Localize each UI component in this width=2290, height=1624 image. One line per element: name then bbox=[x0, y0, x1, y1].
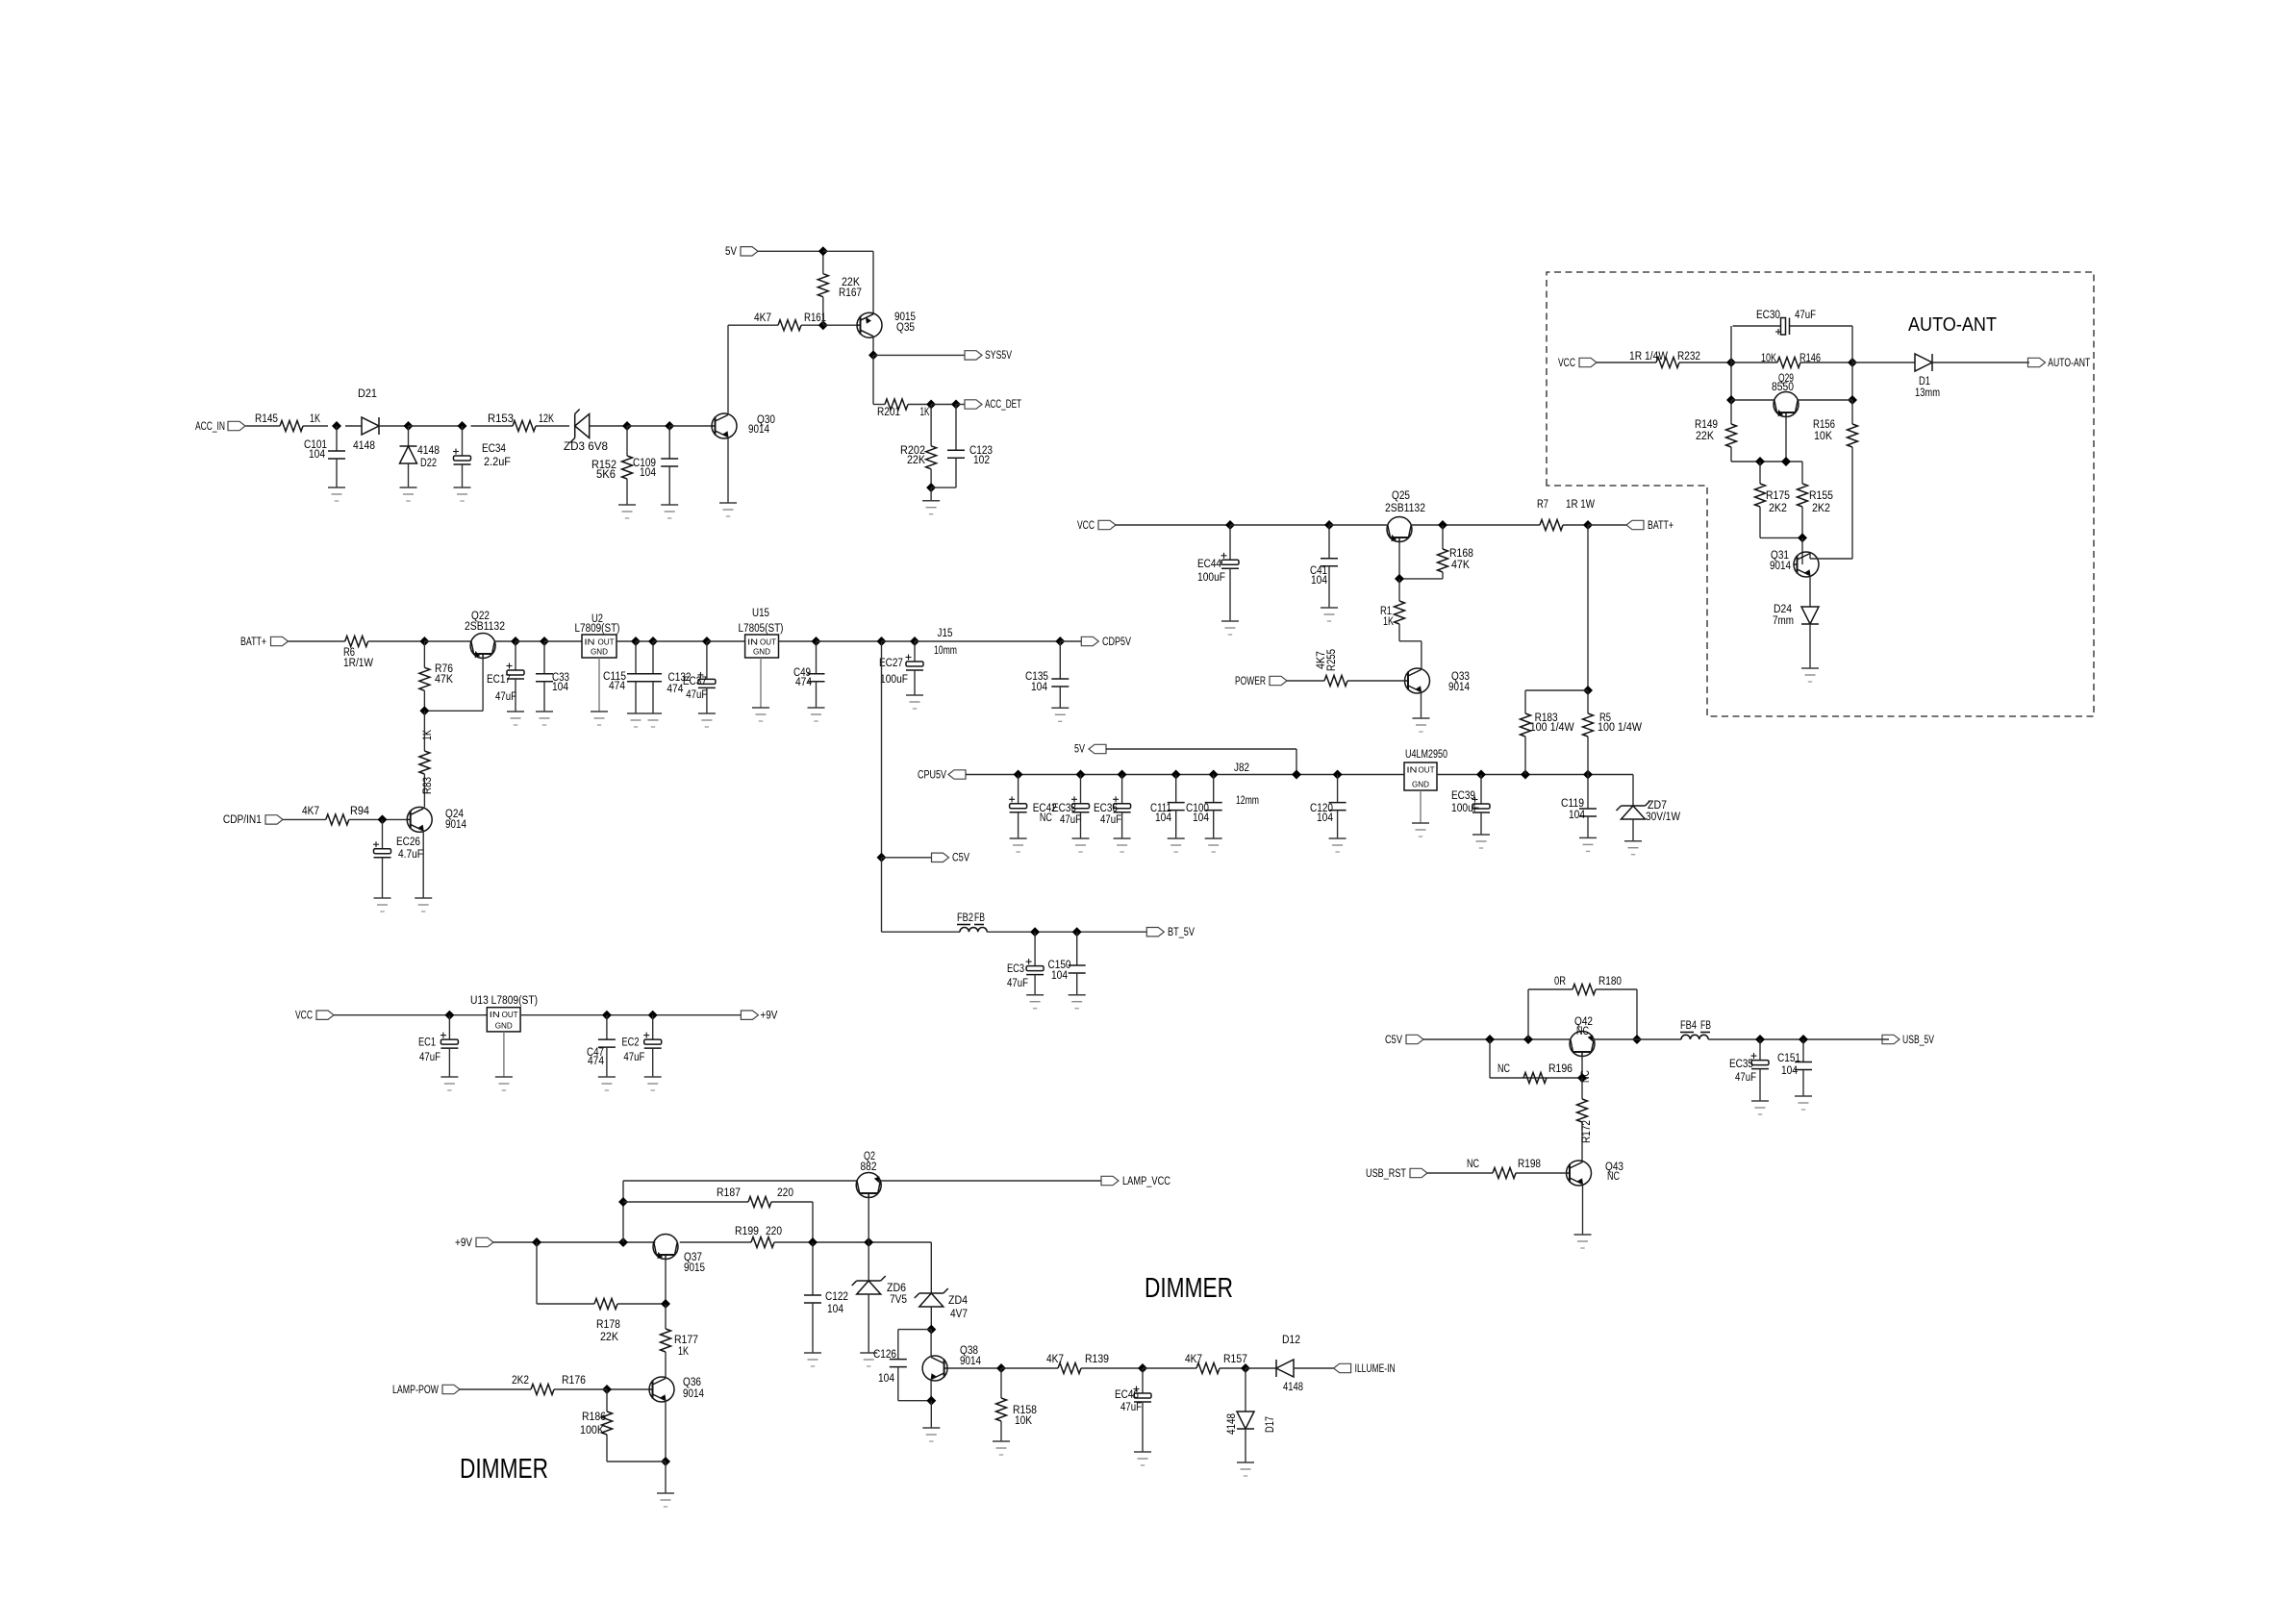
svg-text:VCC: VCC bbox=[1077, 520, 1095, 532]
svg-text:Q25: Q25 bbox=[1392, 490, 1410, 502]
svg-text:100uF: 100uF bbox=[1197, 572, 1225, 584]
svg-text:2K2: 2K2 bbox=[1769, 503, 1787, 514]
svg-text:R168: R168 bbox=[1449, 548, 1473, 560]
svg-text:R178: R178 bbox=[596, 1319, 620, 1331]
svg-text:EC17: EC17 bbox=[487, 674, 511, 686]
svg-text:U4LM2950: U4LM2950 bbox=[1405, 749, 1447, 761]
svg-text:4K7: 4K7 bbox=[1046, 1354, 1064, 1365]
svg-text:9015: 9015 bbox=[684, 1262, 705, 1274]
svg-text:104: 104 bbox=[1781, 1065, 1799, 1077]
svg-text:CDP/IN1: CDP/IN1 bbox=[223, 814, 262, 826]
svg-text:47uF: 47uF bbox=[1735, 1072, 1756, 1084]
svg-text:100 1/4W: 100 1/4W bbox=[1530, 722, 1574, 734]
svg-text:D12: D12 bbox=[1282, 1335, 1300, 1346]
svg-text:VCC: VCC bbox=[295, 1011, 313, 1022]
svg-text:OUT: OUT bbox=[1419, 765, 1435, 775]
svg-text:5K6: 5K6 bbox=[596, 469, 616, 481]
svg-text:DIMMER: DIMMER bbox=[460, 1454, 548, 1485]
svg-text:2K2: 2K2 bbox=[512, 1375, 529, 1387]
svg-text:EC27: EC27 bbox=[879, 658, 903, 669]
svg-text:474: 474 bbox=[588, 1056, 605, 1067]
svg-text:5V: 5V bbox=[725, 246, 737, 258]
svg-text:NC: NC bbox=[1040, 812, 1052, 824]
svg-text:100uF: 100uF bbox=[880, 674, 908, 686]
svg-text:22K: 22K bbox=[600, 1332, 618, 1343]
svg-text:R149: R149 bbox=[1695, 419, 1718, 431]
svg-text:IN: IN bbox=[747, 637, 758, 647]
svg-text:1K: 1K bbox=[678, 1346, 689, 1358]
svg-text:R187: R187 bbox=[717, 1187, 741, 1199]
svg-text:8550: 8550 bbox=[1772, 382, 1794, 393]
svg-text:R175: R175 bbox=[1766, 490, 1790, 502]
svg-text:30V/1W: 30V/1W bbox=[1646, 812, 1680, 823]
svg-text:EC3: EC3 bbox=[1007, 963, 1024, 975]
svg-text:104: 104 bbox=[1569, 810, 1586, 821]
svg-text:47K: 47K bbox=[1451, 560, 1470, 571]
svg-text:IN: IN bbox=[490, 1010, 500, 1019]
svg-text:EC39: EC39 bbox=[1451, 790, 1475, 802]
svg-text:104: 104 bbox=[552, 682, 569, 693]
svg-text:FB: FB bbox=[1700, 1020, 1711, 1032]
svg-text:ACC_IN: ACC_IN bbox=[195, 421, 225, 433]
svg-text:R199: R199 bbox=[735, 1226, 759, 1237]
svg-text:R139: R139 bbox=[1085, 1354, 1109, 1365]
svg-text:+9V: +9V bbox=[455, 1237, 472, 1249]
svg-text:EC33: EC33 bbox=[1052, 803, 1076, 814]
svg-text:2K2: 2K2 bbox=[1812, 503, 1830, 514]
svg-text:LAMP_VCC: LAMP_VCC bbox=[1122, 1176, 1170, 1187]
svg-text:C122: C122 bbox=[825, 1291, 848, 1303]
svg-text:BATT+: BATT+ bbox=[240, 637, 266, 648]
svg-text:J82: J82 bbox=[1234, 762, 1249, 774]
svg-text:EC30: EC30 bbox=[1756, 310, 1780, 321]
svg-text:220: 220 bbox=[766, 1226, 782, 1237]
svg-text:EC34: EC34 bbox=[482, 443, 507, 455]
svg-text:R196: R196 bbox=[1548, 1063, 1573, 1075]
svg-text:D17: D17 bbox=[1265, 1416, 1276, 1433]
svg-text:FB4: FB4 bbox=[1680, 1020, 1697, 1032]
svg-text:22K: 22K bbox=[907, 455, 925, 466]
svg-text:2SB1132: 2SB1132 bbox=[1385, 503, 1425, 514]
svg-text:9014: 9014 bbox=[1448, 682, 1471, 693]
svg-text:C126: C126 bbox=[873, 1349, 896, 1361]
svg-text:9014: 9014 bbox=[1770, 561, 1792, 572]
svg-text:1R 1W: 1R 1W bbox=[1566, 499, 1595, 511]
svg-text:474: 474 bbox=[667, 684, 684, 695]
svg-text:CPU5V: CPU5V bbox=[918, 770, 946, 782]
svg-text:EC26: EC26 bbox=[396, 837, 420, 848]
svg-text:L7809(ST): L7809(ST) bbox=[575, 623, 620, 635]
svg-text:10mm: 10mm bbox=[934, 645, 957, 657]
svg-text:12mm: 12mm bbox=[1236, 795, 1259, 807]
svg-text:AUTO-ANT: AUTO-ANT bbox=[2048, 358, 2090, 369]
svg-text:CDP5V: CDP5V bbox=[1102, 637, 1131, 648]
svg-text:R186: R186 bbox=[582, 1412, 606, 1423]
svg-text:1R 1/4W: 1R 1/4W bbox=[1629, 351, 1668, 362]
svg-text:R198: R198 bbox=[1518, 1159, 1541, 1170]
svg-text:100K: 100K bbox=[580, 1425, 604, 1437]
svg-text:474: 474 bbox=[795, 677, 813, 688]
svg-text:104: 104 bbox=[1031, 682, 1048, 693]
svg-text:10K: 10K bbox=[1814, 431, 1832, 442]
svg-text:EC37: EC37 bbox=[683, 676, 707, 687]
svg-text:R83: R83 bbox=[422, 777, 434, 794]
svg-text:C5V: C5V bbox=[952, 853, 969, 864]
svg-text:U13 L7809(ST): U13 L7809(ST) bbox=[470, 995, 538, 1007]
svg-text:R156: R156 bbox=[1813, 419, 1835, 431]
svg-text:R255: R255 bbox=[1326, 649, 1338, 671]
svg-text:EC44: EC44 bbox=[1197, 559, 1222, 570]
svg-text:104: 104 bbox=[1311, 575, 1328, 587]
svg-text:47uF: 47uF bbox=[623, 1052, 644, 1063]
svg-text:10K: 10K bbox=[1761, 353, 1776, 364]
svg-text:EC35: EC35 bbox=[1729, 1059, 1753, 1070]
svg-text:9014: 9014 bbox=[683, 1388, 705, 1400]
svg-text:1K: 1K bbox=[310, 413, 320, 425]
svg-text:FB: FB bbox=[974, 912, 985, 924]
svg-text:104: 104 bbox=[1193, 812, 1210, 824]
svg-text:ZD3 6V8: ZD3 6V8 bbox=[564, 441, 608, 453]
svg-text:USB_RST: USB_RST bbox=[1366, 1168, 1406, 1180]
svg-text:47K: 47K bbox=[435, 674, 453, 686]
svg-text:GND: GND bbox=[495, 1020, 513, 1030]
svg-text:104: 104 bbox=[1051, 970, 1069, 982]
svg-text:104: 104 bbox=[1317, 812, 1334, 824]
svg-text:USB_5V: USB_5V bbox=[1902, 1035, 1934, 1046]
svg-text:EC2: EC2 bbox=[622, 1037, 640, 1049]
svg-text:R201: R201 bbox=[877, 407, 900, 418]
svg-text:882: 882 bbox=[861, 1162, 877, 1173]
svg-text:GND: GND bbox=[1412, 780, 1429, 789]
svg-text:R145: R145 bbox=[255, 413, 278, 425]
svg-text:GND: GND bbox=[753, 647, 770, 657]
svg-text:D21: D21 bbox=[358, 388, 377, 400]
svg-text:GND: GND bbox=[591, 647, 608, 657]
svg-text:OUT: OUT bbox=[502, 1010, 518, 1019]
svg-text:7mm: 7mm bbox=[1773, 615, 1794, 627]
svg-text:47uF: 47uF bbox=[1100, 814, 1121, 826]
svg-text:U15: U15 bbox=[752, 608, 769, 619]
svg-text:4.7uF: 4.7uF bbox=[398, 849, 423, 861]
svg-text:OUT: OUT bbox=[598, 637, 615, 647]
svg-text:R153: R153 bbox=[488, 413, 514, 425]
svg-text:NC: NC bbox=[1576, 1026, 1589, 1037]
svg-text:4V7: 4V7 bbox=[950, 1309, 968, 1320]
svg-text:1K: 1K bbox=[1383, 616, 1394, 628]
svg-text:47uF: 47uF bbox=[1060, 814, 1081, 826]
svg-text:C5V: C5V bbox=[1385, 1035, 1402, 1046]
svg-text:R94: R94 bbox=[350, 806, 370, 817]
svg-text:D24: D24 bbox=[1774, 604, 1793, 615]
svg-text:100 1/4W: 100 1/4W bbox=[1598, 722, 1642, 734]
svg-text:13mm: 13mm bbox=[1915, 387, 1940, 399]
svg-text:47uF: 47uF bbox=[1795, 310, 1816, 321]
svg-text:R146: R146 bbox=[1799, 353, 1821, 364]
svg-text:4148: 4148 bbox=[1283, 1382, 1303, 1393]
svg-text:Q36: Q36 bbox=[683, 1377, 701, 1388]
svg-text:4K7: 4K7 bbox=[1185, 1354, 1202, 1365]
svg-text:L7805(ST): L7805(ST) bbox=[739, 623, 784, 635]
svg-text:220: 220 bbox=[777, 1187, 793, 1199]
svg-text:OUT: OUT bbox=[760, 637, 776, 647]
svg-text:2.2uF: 2.2uF bbox=[484, 457, 511, 468]
svg-text:5V: 5V bbox=[1074, 744, 1085, 756]
svg-text:ZD4: ZD4 bbox=[948, 1295, 969, 1307]
svg-text:9014: 9014 bbox=[748, 424, 770, 436]
svg-text:9014: 9014 bbox=[445, 819, 467, 831]
svg-text:22K: 22K bbox=[1696, 431, 1714, 442]
svg-text:R172: R172 bbox=[1581, 1120, 1593, 1143]
svg-text:LAMP-POW: LAMP-POW bbox=[392, 1385, 439, 1396]
svg-text:104: 104 bbox=[1155, 812, 1172, 824]
svg-text:4148: 4148 bbox=[417, 445, 440, 457]
svg-text:R180: R180 bbox=[1598, 976, 1622, 987]
svg-text:EC46: EC46 bbox=[1115, 1389, 1139, 1401]
svg-text:4148: 4148 bbox=[353, 440, 375, 452]
svg-text:R7: R7 bbox=[1537, 499, 1548, 511]
svg-text:J15: J15 bbox=[938, 628, 953, 639]
svg-text:R232: R232 bbox=[1677, 351, 1700, 362]
svg-text:1K: 1K bbox=[920, 407, 930, 418]
svg-text:Q35: Q35 bbox=[896, 322, 915, 334]
svg-text:4148: 4148 bbox=[1226, 1413, 1238, 1435]
svg-text:104: 104 bbox=[309, 449, 326, 461]
svg-text:4K7: 4K7 bbox=[754, 312, 771, 324]
svg-text:EC1: EC1 bbox=[418, 1037, 436, 1049]
svg-text:DIMMER: DIMMER bbox=[1145, 1273, 1233, 1304]
svg-text:12K: 12K bbox=[539, 413, 554, 425]
svg-text:NC: NC bbox=[1497, 1063, 1510, 1075]
svg-text:BATT+: BATT+ bbox=[1648, 520, 1673, 532]
svg-text:POWER: POWER bbox=[1235, 676, 1266, 687]
svg-text:47uF: 47uF bbox=[419, 1052, 440, 1063]
svg-text:ZD6: ZD6 bbox=[887, 1283, 906, 1294]
svg-text:SYS5V: SYS5V bbox=[985, 350, 1012, 362]
svg-text:100uF: 100uF bbox=[1451, 803, 1479, 814]
svg-text:VCC: VCC bbox=[1558, 358, 1575, 369]
svg-text:R157: R157 bbox=[1223, 1354, 1247, 1365]
svg-text:NC: NC bbox=[1607, 1171, 1620, 1183]
svg-text:0R: 0R bbox=[1554, 976, 1566, 987]
svg-text:BT_5V: BT_5V bbox=[1168, 927, 1195, 938]
svg-text:FB2: FB2 bbox=[957, 912, 973, 924]
svg-text:C151: C151 bbox=[1777, 1053, 1800, 1064]
svg-text:ILLUME-IN: ILLUME-IN bbox=[1355, 1363, 1396, 1375]
svg-text:104: 104 bbox=[878, 1373, 895, 1385]
svg-text:+9V: +9V bbox=[760, 1011, 777, 1022]
svg-text:D22: D22 bbox=[420, 458, 437, 469]
svg-text:NC: NC bbox=[1467, 1159, 1479, 1170]
svg-text:47uF: 47uF bbox=[495, 691, 516, 703]
svg-text:IN: IN bbox=[1407, 765, 1418, 775]
svg-text:47uF: 47uF bbox=[1120, 1402, 1142, 1413]
svg-text:474: 474 bbox=[609, 681, 626, 692]
svg-text:47uF: 47uF bbox=[1007, 978, 1028, 989]
svg-text:AUTO-ANT: AUTO-ANT bbox=[1908, 314, 1997, 336]
svg-text:10K: 10K bbox=[1015, 1415, 1032, 1427]
svg-text:R176: R176 bbox=[562, 1375, 586, 1387]
svg-text:IN: IN bbox=[585, 637, 595, 647]
svg-text:R167: R167 bbox=[839, 287, 862, 299]
svg-text:104: 104 bbox=[827, 1304, 844, 1315]
svg-text:ZD7: ZD7 bbox=[1648, 800, 1667, 812]
svg-text:1R/1W: 1R/1W bbox=[343, 658, 373, 669]
svg-text:C119: C119 bbox=[1561, 798, 1584, 810]
svg-text:4K7: 4K7 bbox=[302, 806, 319, 817]
svg-text:7V5: 7V5 bbox=[890, 1294, 907, 1306]
svg-text:R155: R155 bbox=[1809, 490, 1833, 502]
svg-text:EC36: EC36 bbox=[1094, 803, 1118, 814]
svg-text:2SB1132: 2SB1132 bbox=[465, 621, 505, 633]
svg-text:47uF: 47uF bbox=[686, 689, 707, 701]
svg-text:D1: D1 bbox=[1919, 376, 1930, 387]
svg-text:102: 102 bbox=[973, 455, 990, 466]
svg-text:104: 104 bbox=[640, 467, 657, 479]
svg-text:ACC_DET: ACC_DET bbox=[985, 399, 1021, 411]
svg-text:R177: R177 bbox=[674, 1335, 698, 1346]
svg-text:9014: 9014 bbox=[960, 1356, 982, 1367]
